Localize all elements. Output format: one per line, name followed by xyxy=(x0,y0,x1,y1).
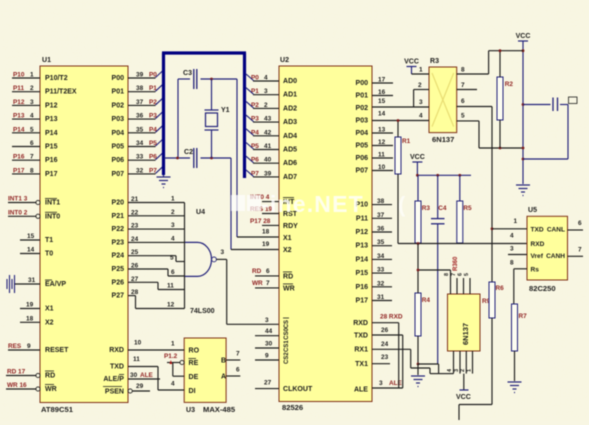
svg-text:P17 28: P17 28 xyxy=(250,218,271,225)
svg-text:P16: P16 xyxy=(45,157,58,164)
svg-text:P17: P17 xyxy=(13,167,25,174)
svg-text:P0: P0 xyxy=(251,75,259,82)
svg-text:P7: P7 xyxy=(251,170,259,177)
svg-text:X1: X1 xyxy=(283,235,292,242)
svg-text:DI: DI xyxy=(189,388,196,395)
svg-text:P4: P4 xyxy=(251,129,259,136)
svg-text:5: 5 xyxy=(30,126,34,133)
svg-text:P20: P20 xyxy=(112,200,125,207)
svg-text:CS2: CS2 xyxy=(284,352,290,364)
svg-text:R360: R360 xyxy=(453,256,459,271)
svg-text:3: 3 xyxy=(264,88,268,95)
svg-text:C3: C3 xyxy=(183,70,192,77)
svg-text:P07: P07 xyxy=(112,171,125,178)
svg-text:X1: X1 xyxy=(45,306,54,313)
svg-text:P12: P12 xyxy=(356,229,369,236)
svg-text:INT0: INT0 xyxy=(45,213,60,220)
svg-text:R4: R4 xyxy=(422,297,431,304)
svg-text:P24: P24 xyxy=(112,253,125,260)
svg-text:R1: R1 xyxy=(402,138,411,145)
svg-text:19: 19 xyxy=(26,302,34,309)
svg-text:P11: P11 xyxy=(13,85,25,92)
svg-text:MAX-485: MAX-485 xyxy=(203,405,236,414)
svg-text:ALE: ALE xyxy=(140,372,154,379)
svg-text:RD 17: RD 17 xyxy=(7,369,26,376)
svg-text:3: 3 xyxy=(510,246,514,253)
svg-text:18: 18 xyxy=(26,315,34,322)
svg-text:6: 6 xyxy=(236,367,240,374)
svg-text:ALE/P: ALE/P xyxy=(103,376,124,383)
svg-text:RXD: RXD xyxy=(109,347,124,354)
svg-text:TXD: TXD xyxy=(110,364,124,371)
svg-text:RDY: RDY xyxy=(283,223,298,230)
svg-text:39: 39 xyxy=(136,72,144,79)
svg-text:6: 6 xyxy=(30,140,34,147)
svg-text:RO: RO xyxy=(189,348,200,355)
svg-text:1: 1 xyxy=(514,218,518,225)
svg-text:33: 33 xyxy=(136,154,144,161)
svg-text:P03: P03 xyxy=(356,118,369,125)
svg-text:TX1: TX1 xyxy=(355,361,368,368)
svg-text:P15: P15 xyxy=(356,270,369,277)
svg-text:EA/VP: EA/VP xyxy=(45,281,66,288)
svg-text:2: 2 xyxy=(418,82,422,89)
svg-text:15: 15 xyxy=(27,233,35,240)
svg-text:P00: P00 xyxy=(356,80,369,87)
svg-text:WR: WR xyxy=(252,280,263,287)
svg-text:2: 2 xyxy=(460,369,466,372)
svg-text:37: 37 xyxy=(377,212,385,219)
svg-text:R6: R6 xyxy=(496,285,505,292)
svg-text:CS: CS xyxy=(284,320,290,328)
svg-text:RD: RD xyxy=(283,274,293,281)
svg-text:35: 35 xyxy=(136,126,144,133)
svg-text:U1: U1 xyxy=(42,57,51,64)
svg-text:43: 43 xyxy=(264,116,272,123)
svg-text:5: 5 xyxy=(461,113,465,120)
svg-text:4: 4 xyxy=(30,113,34,120)
svg-text:26: 26 xyxy=(381,327,389,334)
svg-text:7: 7 xyxy=(236,351,240,358)
svg-text:TXD: TXD xyxy=(354,333,368,340)
svg-text:3: 3 xyxy=(379,380,383,387)
svg-text:P05: P05 xyxy=(112,144,125,151)
svg-text:7: 7 xyxy=(266,280,270,287)
svg-text:9: 9 xyxy=(27,343,31,350)
svg-text:RESET: RESET xyxy=(45,347,69,354)
svg-text:CLKOUT: CLKOUT xyxy=(283,386,313,393)
svg-text:P01: P01 xyxy=(356,93,369,100)
svg-text:P26: P26 xyxy=(112,279,125,286)
svg-text:P13: P13 xyxy=(13,113,25,120)
svg-text:RXD: RXD xyxy=(353,320,368,327)
svg-text:36: 36 xyxy=(136,113,144,120)
svg-text:42: 42 xyxy=(264,129,272,136)
svg-text:3: 3 xyxy=(419,99,423,106)
svg-text:P12: P12 xyxy=(45,102,58,109)
svg-text:9: 9 xyxy=(265,353,269,360)
svg-text:36: 36 xyxy=(377,226,385,233)
svg-text:WR: WR xyxy=(45,386,57,393)
svg-text:RD: RD xyxy=(252,268,262,275)
svg-text:B: B xyxy=(221,358,226,365)
svg-text:10: 10 xyxy=(134,340,142,347)
svg-text:18: 18 xyxy=(262,229,270,236)
svg-text:PSEN: PSEN xyxy=(105,389,124,396)
svg-text:P27: P27 xyxy=(112,293,125,300)
svg-text:3: 3 xyxy=(221,249,225,256)
svg-text:WR 16: WR 16 xyxy=(7,382,27,389)
svg-text:P06: P06 xyxy=(356,155,369,162)
svg-text:32: 32 xyxy=(377,280,385,287)
svg-text:P6: P6 xyxy=(251,157,259,164)
svg-text:7: 7 xyxy=(461,82,465,89)
svg-text:19: 19 xyxy=(262,241,270,248)
svg-text:P07: P07 xyxy=(356,168,369,175)
svg-text:P17: P17 xyxy=(45,171,58,178)
svg-text:P15: P15 xyxy=(45,144,58,151)
svg-text:P04: P04 xyxy=(356,130,369,137)
svg-text:37: 37 xyxy=(136,99,144,106)
svg-text:P03: P03 xyxy=(112,116,125,123)
svg-text:82526: 82526 xyxy=(282,403,303,412)
svg-text:6: 6 xyxy=(458,273,464,276)
svg-text:P04: P04 xyxy=(112,130,125,137)
svg-text:38: 38 xyxy=(136,85,144,92)
svg-text:R5: R5 xyxy=(463,205,472,212)
svg-text:5: 5 xyxy=(464,273,470,276)
svg-text:4: 4 xyxy=(171,235,175,242)
svg-text:Rs: Rs xyxy=(531,267,540,274)
svg-text:P05: P05 xyxy=(356,143,369,150)
svg-text:8: 8 xyxy=(444,273,450,276)
svg-text:TXD: TXD xyxy=(531,226,544,233)
svg-text:4: 4 xyxy=(171,381,175,388)
svg-text:3: 3 xyxy=(171,222,175,229)
svg-text:P1.2: P1.2 xyxy=(164,353,178,360)
svg-text:1: 1 xyxy=(467,369,473,372)
svg-text:AD4: AD4 xyxy=(283,133,297,140)
svg-text:U4: U4 xyxy=(196,209,205,216)
svg-text:P21: P21 xyxy=(112,213,125,220)
svg-text:VCC: VCC xyxy=(404,59,419,66)
svg-text:34: 34 xyxy=(136,140,144,147)
svg-text:Vref: Vref xyxy=(531,253,544,260)
svg-text:ALE: ALE xyxy=(354,387,368,394)
svg-text:P10/T2: P10/T2 xyxy=(45,75,68,82)
svg-text:U3: U3 xyxy=(186,407,195,414)
svg-text:6: 6 xyxy=(171,269,175,276)
svg-text:P01: P01 xyxy=(112,89,125,96)
svg-text:P23: P23 xyxy=(112,239,125,246)
svg-text:40: 40 xyxy=(264,157,272,164)
svg-text:6N137: 6N137 xyxy=(432,135,454,144)
svg-text:R3: R3 xyxy=(430,58,439,65)
svg-text:11: 11 xyxy=(133,356,140,363)
svg-text:82C250: 82C250 xyxy=(529,284,556,293)
svg-text:U2: U2 xyxy=(280,57,289,64)
svg-text:13: 13 xyxy=(378,127,386,134)
svg-text:1: 1 xyxy=(419,67,423,74)
svg-text:27: 27 xyxy=(264,380,272,387)
svg-text:VCC: VCC xyxy=(456,394,471,401)
svg-text:P16: P16 xyxy=(13,154,25,161)
svg-text:6: 6 xyxy=(578,220,582,227)
svg-text:11: 11 xyxy=(378,152,385,159)
svg-text:44: 44 xyxy=(265,328,273,335)
svg-text:ALE: ALE xyxy=(389,380,403,387)
svg-text:P12: P12 xyxy=(13,99,25,106)
svg-text:RES: RES xyxy=(8,343,22,350)
svg-text:P2: P2 xyxy=(251,102,259,109)
svg-text:2: 2 xyxy=(264,102,268,109)
svg-text:CS1: CS1 xyxy=(284,340,290,352)
svg-text:8: 8 xyxy=(30,167,34,174)
svg-text:2: 2 xyxy=(171,209,175,216)
svg-text:10: 10 xyxy=(378,164,386,171)
svg-text:INT0 2: INT0 2 xyxy=(8,209,28,216)
svg-text:14: 14 xyxy=(378,111,386,118)
svg-text:CS0: CS0 xyxy=(284,327,290,339)
svg-text:29: 29 xyxy=(136,383,144,390)
svg-text:P00: P00 xyxy=(112,75,125,82)
svg-text:P10: P10 xyxy=(13,72,25,79)
svg-text:RE: RE xyxy=(189,360,199,367)
svg-text:P02: P02 xyxy=(112,102,125,109)
svg-text:16: 16 xyxy=(378,89,386,96)
svg-text:2: 2 xyxy=(30,85,34,92)
svg-text:AD7: AD7 xyxy=(283,174,297,181)
svg-text:31: 31 xyxy=(377,294,385,301)
svg-text:CANL: CANL xyxy=(547,226,565,233)
svg-text:INT1: INT1 xyxy=(45,200,60,207)
svg-text:P17: P17 xyxy=(356,298,369,305)
svg-text:X2: X2 xyxy=(45,319,54,326)
svg-text:-ine.NET: -ine.NET xyxy=(261,191,364,217)
svg-text:38: 38 xyxy=(377,198,385,205)
svg-text:P5: P5 xyxy=(251,143,259,150)
svg-text:A: A xyxy=(221,374,226,381)
svg-text:7: 7 xyxy=(578,247,582,254)
svg-text:4: 4 xyxy=(510,233,514,240)
svg-text:39: 39 xyxy=(264,170,272,177)
svg-text:U5: U5 xyxy=(528,207,537,214)
svg-text:X2: X2 xyxy=(283,247,292,254)
svg-text:CANH: CANH xyxy=(546,253,565,260)
svg-text:41: 41 xyxy=(264,143,272,150)
svg-text:AD5: AD5 xyxy=(283,147,297,154)
svg-text:15: 15 xyxy=(378,98,386,105)
svg-text:6: 6 xyxy=(461,98,465,105)
svg-text:8: 8 xyxy=(461,67,465,74)
svg-text:30: 30 xyxy=(130,372,138,379)
svg-text:32: 32 xyxy=(136,167,144,174)
svg-text:P13: P13 xyxy=(356,243,369,250)
svg-text:3: 3 xyxy=(30,99,34,106)
svg-text:7: 7 xyxy=(451,273,457,276)
svg-text:R7: R7 xyxy=(519,313,528,320)
svg-text:35: 35 xyxy=(377,239,385,246)
svg-text:P14: P14 xyxy=(356,256,369,263)
svg-text:1: 1 xyxy=(171,196,175,203)
svg-text:P06: P06 xyxy=(112,157,125,164)
svg-text:14: 14 xyxy=(27,247,35,254)
svg-text:P02: P02 xyxy=(356,105,369,112)
svg-text:28 RXD: 28 RXD xyxy=(380,314,403,321)
svg-text:VCC: VCC xyxy=(516,33,531,40)
svg-text:P14: P14 xyxy=(13,126,25,133)
svg-text:P13: P13 xyxy=(45,116,58,123)
svg-text:C4: C4 xyxy=(438,205,447,212)
svg-text:T1: T1 xyxy=(45,237,53,244)
svg-text:6: 6 xyxy=(266,268,270,275)
svg-text:AD1: AD1 xyxy=(283,92,297,99)
svg-text:12: 12 xyxy=(167,302,175,309)
svg-text:17: 17 xyxy=(378,77,386,84)
svg-text:3: 3 xyxy=(265,317,269,324)
svg-text:1: 1 xyxy=(30,72,34,79)
svg-text:34: 34 xyxy=(377,253,385,260)
svg-text:RX1: RX1 xyxy=(354,347,368,354)
svg-text:AD6: AD6 xyxy=(283,160,297,167)
svg-text:AD3: AD3 xyxy=(283,119,297,126)
svg-text:R3: R3 xyxy=(422,205,431,212)
svg-text:12: 12 xyxy=(378,139,386,146)
svg-text:INT1 3: INT1 3 xyxy=(8,196,28,203)
svg-text:24: 24 xyxy=(381,341,389,348)
svg-text:P3: P3 xyxy=(251,116,259,123)
svg-text:P14: P14 xyxy=(45,130,58,137)
svg-text:11: 11 xyxy=(167,283,174,290)
svg-text:23: 23 xyxy=(381,354,389,361)
svg-text:AT89C51: AT89C51 xyxy=(41,405,74,414)
svg-text:Y1: Y1 xyxy=(221,107,230,114)
svg-text:74LS00: 74LS00 xyxy=(190,308,215,315)
svg-text:RXD: RXD xyxy=(531,241,545,248)
svg-text:T0: T0 xyxy=(45,251,53,258)
svg-text:R2: R2 xyxy=(505,81,514,88)
svg-text:P25: P25 xyxy=(112,266,125,273)
svg-text:30: 30 xyxy=(265,341,273,348)
svg-text:33: 33 xyxy=(377,267,385,274)
svg-text:5: 5 xyxy=(170,255,174,262)
svg-text:P1: P1 xyxy=(251,88,259,95)
svg-text:VCC: VCC xyxy=(410,154,425,161)
svg-text:C2: C2 xyxy=(184,149,193,156)
svg-text:1: 1 xyxy=(171,341,175,348)
svg-text:DE: DE xyxy=(189,374,199,381)
svg-text:RD: RD xyxy=(45,373,55,380)
svg-text:P16: P16 xyxy=(356,284,369,291)
svg-text:P22: P22 xyxy=(112,226,125,233)
svg-text:7: 7 xyxy=(30,154,34,161)
svg-text:WR: WR xyxy=(283,286,295,293)
svg-text:31: 31 xyxy=(28,277,36,284)
svg-text:6N137: 6N137 xyxy=(461,323,470,345)
svg-text:4: 4 xyxy=(419,113,423,120)
svg-text:8: 8 xyxy=(510,260,514,267)
svg-text:4: 4 xyxy=(264,75,268,82)
svg-text:AD2: AD2 xyxy=(283,105,297,112)
svg-text:P11/T2EX: P11/T2EX xyxy=(45,89,77,96)
svg-text:(: ( xyxy=(398,192,406,217)
svg-text:AD0: AD0 xyxy=(283,78,297,85)
